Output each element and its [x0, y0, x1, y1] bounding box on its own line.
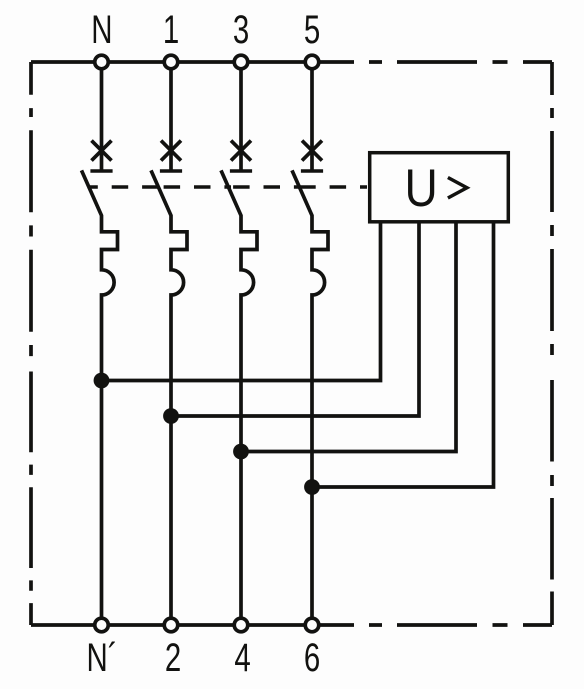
svg-text:3: 3 — [233, 8, 249, 53]
svg-text:5: 5 — [304, 8, 320, 53]
svg-text:2: 2 — [165, 636, 181, 681]
svg-text:1: 1 — [163, 8, 179, 53]
svg-text:U: U — [405, 158, 438, 218]
svg-text:4: 4 — [234, 636, 250, 681]
svg-text:6: 6 — [304, 636, 320, 681]
svg-text:N: N — [91, 8, 112, 53]
svg-text:N´: N´ — [86, 636, 117, 681]
